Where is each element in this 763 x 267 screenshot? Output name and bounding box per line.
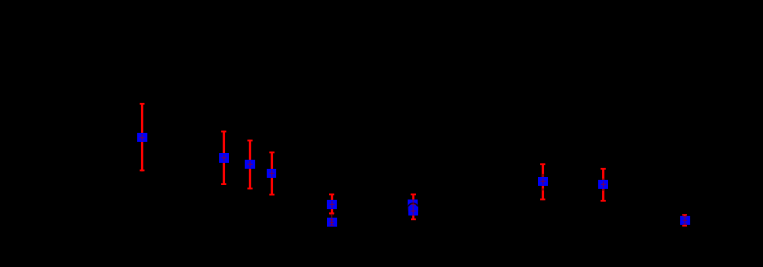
point P3 stat error bar xyxy=(247,140,252,189)
point P10 sys error bar (dark overlay segments) xyxy=(602,179,604,191)
point P11 sys error bar xyxy=(683,216,688,224)
point P4 sys error bar xyxy=(269,170,274,177)
point P2 marker xyxy=(219,153,229,163)
point P2 sys error bar xyxy=(221,155,226,162)
point P5 sys error bar xyxy=(329,201,334,208)
point P1 sys error bar xyxy=(140,134,145,141)
point P3 sys error bar xyxy=(247,161,252,168)
point P6 sys error bar xyxy=(329,214,334,226)
point P1 marker xyxy=(137,133,147,142)
point P9 stat error bar xyxy=(540,164,545,201)
point P6 marker xyxy=(327,218,337,227)
point P5 marker xyxy=(327,200,337,209)
point P9 sys error bar (dark overlay segments) xyxy=(542,174,544,191)
point P3 marker xyxy=(245,160,255,169)
point P10 stat error bar xyxy=(601,168,606,201)
circle marker between P7 and P8 xyxy=(408,203,418,213)
point P4 marker xyxy=(267,169,276,178)
point P11 marker xyxy=(680,216,690,225)
point P9 marker xyxy=(538,177,548,186)
point P11 stat error bar xyxy=(682,215,687,226)
point P8 marker xyxy=(408,207,418,216)
point P5 stat error bar xyxy=(329,194,334,214)
points P7+P8 shared stat error bar xyxy=(411,194,416,220)
point P7 marker xyxy=(408,200,418,209)
point P10 marker xyxy=(598,180,608,189)
point P10 sys center tick xyxy=(601,181,606,187)
point P4 stat error bar xyxy=(269,152,274,196)
point P9 sys center tick xyxy=(541,178,546,184)
point P2 stat error bar xyxy=(221,131,226,185)
points P7+P8 sys error bar xyxy=(411,199,416,216)
point P1 stat error bar xyxy=(140,103,145,171)
